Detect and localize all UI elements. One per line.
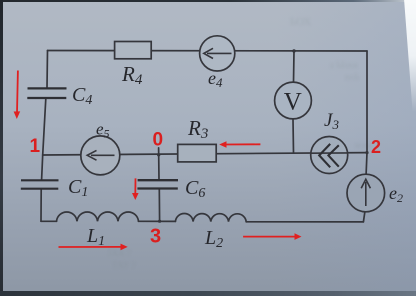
wire bottom between L1 and L2 [139,220,176,222]
wire top horizontal [48,50,368,53]
current source J3 [311,137,348,174]
wire bottom right segment [246,221,363,223]
source e4 [200,36,235,71]
svg-text:C1: C1 [68,176,88,200]
wire bottom left segment [41,220,57,222]
wire left vertical [46,51,49,88]
resistor R4 [115,42,152,59]
junction node 0 [157,153,160,156]
svg-text:0: 0 [153,130,164,151]
capacitor C4 [27,88,66,98]
wire left vertical below C1 [40,189,42,221]
svg-text:2: 2 [371,137,381,157]
svg-text:L1: L1 [86,225,105,249]
svg-text:R3: R3 [187,116,208,142]
svg-text:C4: C4 [72,84,92,108]
junction node 3 [158,220,161,223]
red arrow below L1 (right) [59,244,128,251]
wire right vertical top [366,51,368,153]
junction node 2 [365,151,368,154]
voltmeter V [275,82,312,119]
svg-text:3: 3 [150,226,161,248]
svg-text:J3: J3 [324,110,339,132]
red arrow left branch (down) [14,71,21,120]
wire V branch lower [292,119,295,153]
svg-text:e2: e2 [389,183,403,205]
resistor R3 [178,144,217,162]
inductor L1 [57,212,139,221]
source e2 [347,174,385,212]
svg-text:R4: R4 [121,62,143,88]
capacitor C6 [137,180,178,188]
svg-text:1: 1 [30,136,41,157]
wire left vertical below node 1 [42,155,43,180]
svg-text:L2: L2 [204,227,223,251]
junction node top of V branch [292,49,295,52]
wire left vertical below C4 [43,99,46,155]
wire node 0 branch vertical [158,148,160,180]
wire V branch upper [293,51,296,83]
inductor L2 [175,213,246,221]
wire node 0 branch below C6 [158,189,160,221]
wire middle horizontal [43,153,367,155]
red arrow C6 branch (down) [132,178,139,200]
capacitor C1 [21,180,59,188]
svg-text:V: V [284,89,302,116]
red arrow right of R3 (left) [219,141,260,148]
wire right vertical between node2 and e2 [365,153,368,175]
svg-text:C6: C6 [185,177,205,201]
source e5 [81,136,120,175]
red arrow below L2 (right) [243,233,301,240]
svg-text:e5: e5 [96,120,110,141]
wire right vertical lower [363,212,365,222]
